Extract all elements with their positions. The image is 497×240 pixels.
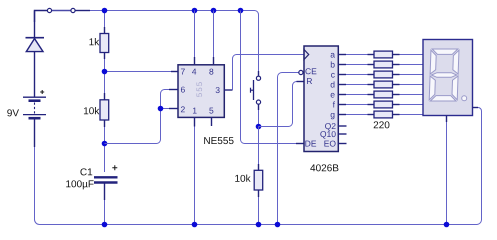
resistor Re 220 bbox=[368, 94, 375, 96]
pin label DE bbox=[305, 141, 316, 147]
segment F bbox=[430, 50, 436, 74]
label C1 bbox=[80, 168, 92, 175]
pin number 2 bbox=[181, 106, 185, 112]
wire c bbox=[346, 74, 368, 76]
segment A bbox=[432, 49, 458, 54]
node 10k ground bbox=[256, 222, 262, 228]
wire pin3 to 4026 clock bbox=[233, 55, 305, 91]
pin CE bubble bbox=[299, 70, 303, 74]
pin f stub bbox=[338, 104, 346, 106]
wire pin1 to ground bbox=[194, 127, 196, 225]
battery BT1 9V bbox=[23, 90, 46, 147]
wire button to junction bbox=[258, 110, 260, 127]
pin label f bbox=[333, 101, 335, 107]
pin label Q10 bbox=[320, 131, 335, 139]
pin label R bbox=[307, 78, 312, 84]
pin number 7 bbox=[181, 69, 185, 75]
resistor R2 10k bbox=[100, 93, 109, 127]
pin label a bbox=[331, 53, 335, 58]
label 1k bbox=[89, 38, 99, 45]
resistor Rg 220 bbox=[368, 114, 375, 116]
pin number 6 bbox=[181, 87, 185, 93]
wire junction to 10k bbox=[258, 127, 260, 165]
label NE555 bbox=[204, 137, 233, 144]
resistor R3 10k bbox=[254, 164, 263, 197]
push button SW2 bbox=[251, 71, 261, 110]
pin c stub bbox=[338, 74, 346, 76]
segment C bbox=[452, 76, 458, 100]
wire b to display bbox=[400, 64, 424, 66]
wire left rail and ground rail bbox=[35, 108, 482, 225]
pin label d bbox=[331, 81, 335, 87]
pin g stub bbox=[338, 114, 346, 116]
pin Q2 stub bbox=[338, 125, 346, 127]
pin number 1 bbox=[193, 108, 197, 114]
label 100uF bbox=[66, 180, 93, 189]
555 marking bbox=[196, 82, 202, 97]
display common pin bbox=[446, 116, 448, 123]
pin 5 stub open bbox=[211, 117, 213, 126]
resistor Rb 220 bbox=[368, 64, 375, 66]
node pins 2/6 tie bbox=[158, 106, 164, 112]
wire pin8 bbox=[213, 11, 215, 58]
node CE ground bbox=[275, 222, 281, 228]
pin a stub bbox=[338, 54, 346, 56]
wire g bbox=[346, 114, 368, 116]
node top rail 1k bbox=[102, 8, 108, 14]
pin number 5 bbox=[209, 108, 213, 114]
label 220 bbox=[374, 121, 390, 128]
wire f to display bbox=[400, 104, 424, 106]
pin d stub bbox=[338, 84, 346, 86]
wire C1 to ground rail bbox=[104, 200, 106, 225]
resistor R1 1k bbox=[100, 27, 109, 59]
wire pin2 tie bbox=[161, 108, 170, 110]
wire d to display bbox=[400, 84, 424, 86]
pin label g bbox=[331, 113, 335, 119]
wire c to display bbox=[400, 74, 424, 76]
resistor Rc 220 bbox=[368, 74, 375, 76]
pin 7 stub bbox=[171, 71, 178, 73]
pin 1 stub bbox=[194, 117, 196, 126]
switch S1 bbox=[47, 8, 75, 12]
node pin1 ground bbox=[192, 222, 198, 228]
node button/R/10k junction bbox=[256, 124, 262, 130]
node top rail DE bbox=[238, 8, 244, 14]
pin number 4 bbox=[192, 69, 196, 75]
wire e to display bbox=[400, 94, 424, 96]
pin label e bbox=[331, 93, 335, 98]
wire top rail bbox=[90, 11, 259, 72]
pin EO stub bbox=[338, 143, 346, 145]
wire a bbox=[346, 54, 368, 56]
wire display common to ground bbox=[446, 122, 448, 225]
pin label b bbox=[331, 61, 335, 67]
wire CE to ground bbox=[278, 73, 299, 225]
wire top-left corner to switch bbox=[35, 11, 48, 23]
segment B bbox=[453, 50, 459, 74]
node divider junction bbox=[102, 69, 108, 75]
node display ground bbox=[444, 222, 450, 228]
decimal point bbox=[462, 96, 467, 101]
wire d bbox=[346, 84, 368, 86]
node top rail pin8 bbox=[211, 8, 217, 14]
label 10k bbox=[235, 175, 250, 182]
segment G bbox=[431, 73, 456, 78]
wire b bbox=[346, 64, 368, 66]
counter IC U2 4026B bbox=[304, 46, 338, 152]
wire DE net bbox=[241, 11, 297, 144]
display right pin bbox=[473, 107, 479, 109]
node C1 ground junction bbox=[102, 222, 108, 228]
pin label EO bbox=[324, 141, 335, 147]
resistor Ra 220 bbox=[368, 54, 375, 56]
segment E bbox=[429, 76, 435, 100]
label 4026B bbox=[310, 164, 338, 171]
resistor Rd 220 bbox=[368, 84, 375, 86]
pin label CE bbox=[305, 68, 316, 74]
diode D1 bbox=[26, 38, 45, 97]
wire junction to R pin bbox=[259, 82, 297, 127]
wire f bbox=[346, 104, 368, 106]
label 9V bbox=[7, 109, 19, 116]
clock input triangle bbox=[304, 50, 309, 60]
wire rail to 1k bbox=[104, 11, 106, 28]
wire pin6 tie bbox=[161, 90, 170, 109]
pin DE stub bbox=[296, 143, 304, 145]
pin number 3 bbox=[216, 87, 220, 93]
wire 1k to 10k bbox=[104, 59, 106, 93]
wire a to display bbox=[400, 54, 424, 56]
wire g to display bbox=[400, 114, 424, 116]
pin number 8 bbox=[209, 69, 213, 75]
wire 10k to C1 node bbox=[104, 127, 106, 172]
resistor Rf 220 bbox=[368, 104, 375, 106]
pin label c bbox=[331, 73, 335, 78]
pin 3 stub bbox=[224, 89, 232, 91]
capacitor C1 bbox=[94, 165, 118, 200]
wire e bbox=[346, 94, 368, 96]
display DS1 7-segment bbox=[423, 40, 473, 116]
node C1 top junction bbox=[102, 141, 108, 147]
pin R stub bbox=[297, 81, 305, 83]
wire 10k to ground bbox=[258, 197, 260, 225]
wire node to NE555 pins 2/6 bbox=[105, 109, 161, 144]
pin 2 stub bbox=[169, 108, 178, 110]
wire pin4 bbox=[194, 11, 196, 58]
wire switch to junction bbox=[76, 10, 91, 12]
label 10k bbox=[84, 107, 99, 114]
pin 6 stub bbox=[169, 89, 178, 91]
wire rail to diode bbox=[34, 11, 36, 38]
wire pin7 to divider node bbox=[105, 71, 172, 73]
node top rail pin4 bbox=[192, 8, 198, 14]
timer IC U1 NE555 bbox=[178, 65, 224, 118]
pin b stub bbox=[338, 64, 346, 66]
pin e stub bbox=[338, 94, 346, 96]
pin Q10 stub bbox=[338, 133, 346, 135]
segment D bbox=[430, 96, 456, 101]
pin label Q2 bbox=[325, 123, 336, 131]
